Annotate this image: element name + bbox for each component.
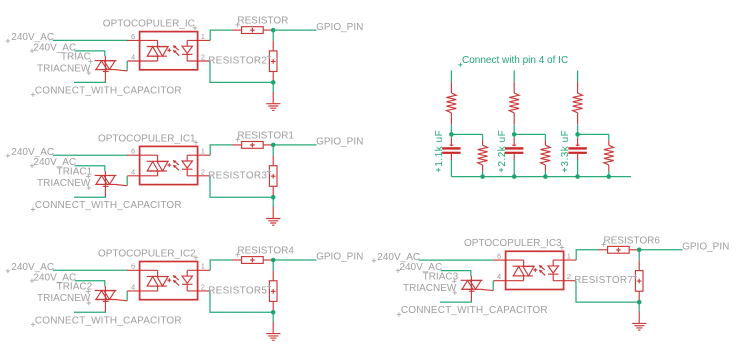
svg-text:RESISTOR: RESISTOR bbox=[237, 16, 288, 27]
svg-text:2.2k uF: 2.2k uF bbox=[497, 130, 508, 167]
svg-text:RESISTOR5: RESISTOR5 bbox=[208, 285, 267, 296]
svg-text:RESISTOR3: RESISTOR3 bbox=[208, 170, 267, 181]
svg-text:OPTOCOPULER_IC1: OPTOCOPULER_IC1 bbox=[98, 133, 196, 144]
svg-text:RESISTOR1: RESISTOR1 bbox=[237, 131, 294, 142]
svg-text:1.1k uF: 1.1k uF bbox=[434, 130, 445, 167]
svg-text:3.3k uF: 3.3k uF bbox=[560, 130, 571, 167]
svg-text:RESISTOR6: RESISTOR6 bbox=[603, 235, 660, 246]
svg-text:Connect with pin 4 of IC: Connect with pin 4 of IC bbox=[462, 55, 568, 66]
svg-text:RESISTOR4: RESISTOR4 bbox=[237, 246, 294, 257]
svg-text:OPTOCOPULER_IC: OPTOCOPULER_IC bbox=[103, 19, 195, 30]
svg-text:TRIAC3: TRIAC3 bbox=[423, 271, 459, 282]
svg-text:TRIAC1: TRIAC1 bbox=[57, 166, 93, 177]
svg-text:OPTOCOPULER_IC2: OPTOCOPULER_IC2 bbox=[98, 248, 196, 259]
svg-text:TRIAC: TRIAC bbox=[61, 52, 91, 63]
svg-text:TRIAC2: TRIAC2 bbox=[57, 282, 93, 293]
svg-text:RESISTOR7: RESISTOR7 bbox=[574, 275, 633, 286]
svg-text:RESISTOR2: RESISTOR2 bbox=[208, 56, 267, 67]
svg-text:OPTOCOPULER_IC3: OPTOCOPULER_IC3 bbox=[464, 238, 562, 249]
